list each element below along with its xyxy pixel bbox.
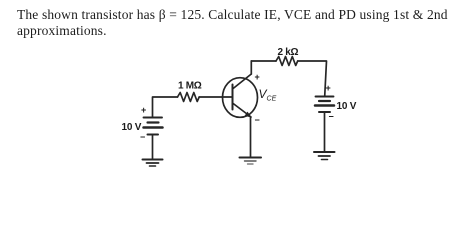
battery VBB 10 V left: plates xyxy=(144,118,163,135)
svg-text:2 kΩ: 2 kΩ xyxy=(278,47,299,58)
problem statement text xyxy=(17,7,472,40)
resistor RC 2 kΩ zigzag xyxy=(276,57,298,66)
wire: top rail left segment to RC xyxy=(251,60,276,62)
wire: battery VBB negative to ground xyxy=(152,135,154,160)
label plus sign battery VCC xyxy=(326,83,331,93)
wire: RB to transistor base xyxy=(199,96,232,98)
svg-text:10 V: 10 V xyxy=(122,122,142,133)
label RC value 2 kΩ xyxy=(278,47,299,58)
svg-text:+: + xyxy=(255,72,260,82)
label battery VBB value 10 V xyxy=(122,122,142,133)
svg-text:VCE: VCE xyxy=(259,87,277,103)
ground under battery VBB xyxy=(143,160,163,167)
transistor Q1 collector diagonal xyxy=(233,74,252,89)
label minus sign at emitter xyxy=(255,115,260,125)
transistor Q1 base bar xyxy=(232,85,234,110)
svg-text:+: + xyxy=(141,105,146,115)
svg-text:−: − xyxy=(255,115,260,125)
wire: top rail right segment to VCC xyxy=(298,61,327,97)
ground under emitter xyxy=(240,158,262,165)
label plus sign battery VBB xyxy=(141,105,146,115)
svg-text:10 V: 10 V xyxy=(337,101,357,112)
label RB value 1 MΩ xyxy=(178,81,202,92)
label battery VCC value 10 V xyxy=(337,101,357,112)
ground under battery VCC xyxy=(314,152,335,160)
wire: emitter lead down to ground xyxy=(250,117,252,157)
wire: battery VCC negative to ground xyxy=(324,112,326,152)
wire: left battery positive up and right to RB xyxy=(153,97,178,117)
wire: collector lead up to top rail xyxy=(250,61,252,74)
svg-text:1 MΩ: 1 MΩ xyxy=(178,81,202,92)
label VCE across transistor xyxy=(259,87,277,103)
label minus sign battery VCC xyxy=(329,112,334,122)
battery VCC 10 V right: plates xyxy=(315,97,334,113)
label minus sign battery VBB xyxy=(140,132,145,142)
resistor RB 1 MΩ zigzag xyxy=(178,93,200,102)
transistor Q1 NPN body circle xyxy=(223,78,258,118)
svg-text:+: + xyxy=(326,83,331,93)
label plus sign at collector xyxy=(255,72,260,82)
svg-text:−: − xyxy=(329,112,334,122)
transistor Q1 emitter diagonal with arrow xyxy=(233,103,252,118)
svg-text:−: − xyxy=(140,132,145,142)
